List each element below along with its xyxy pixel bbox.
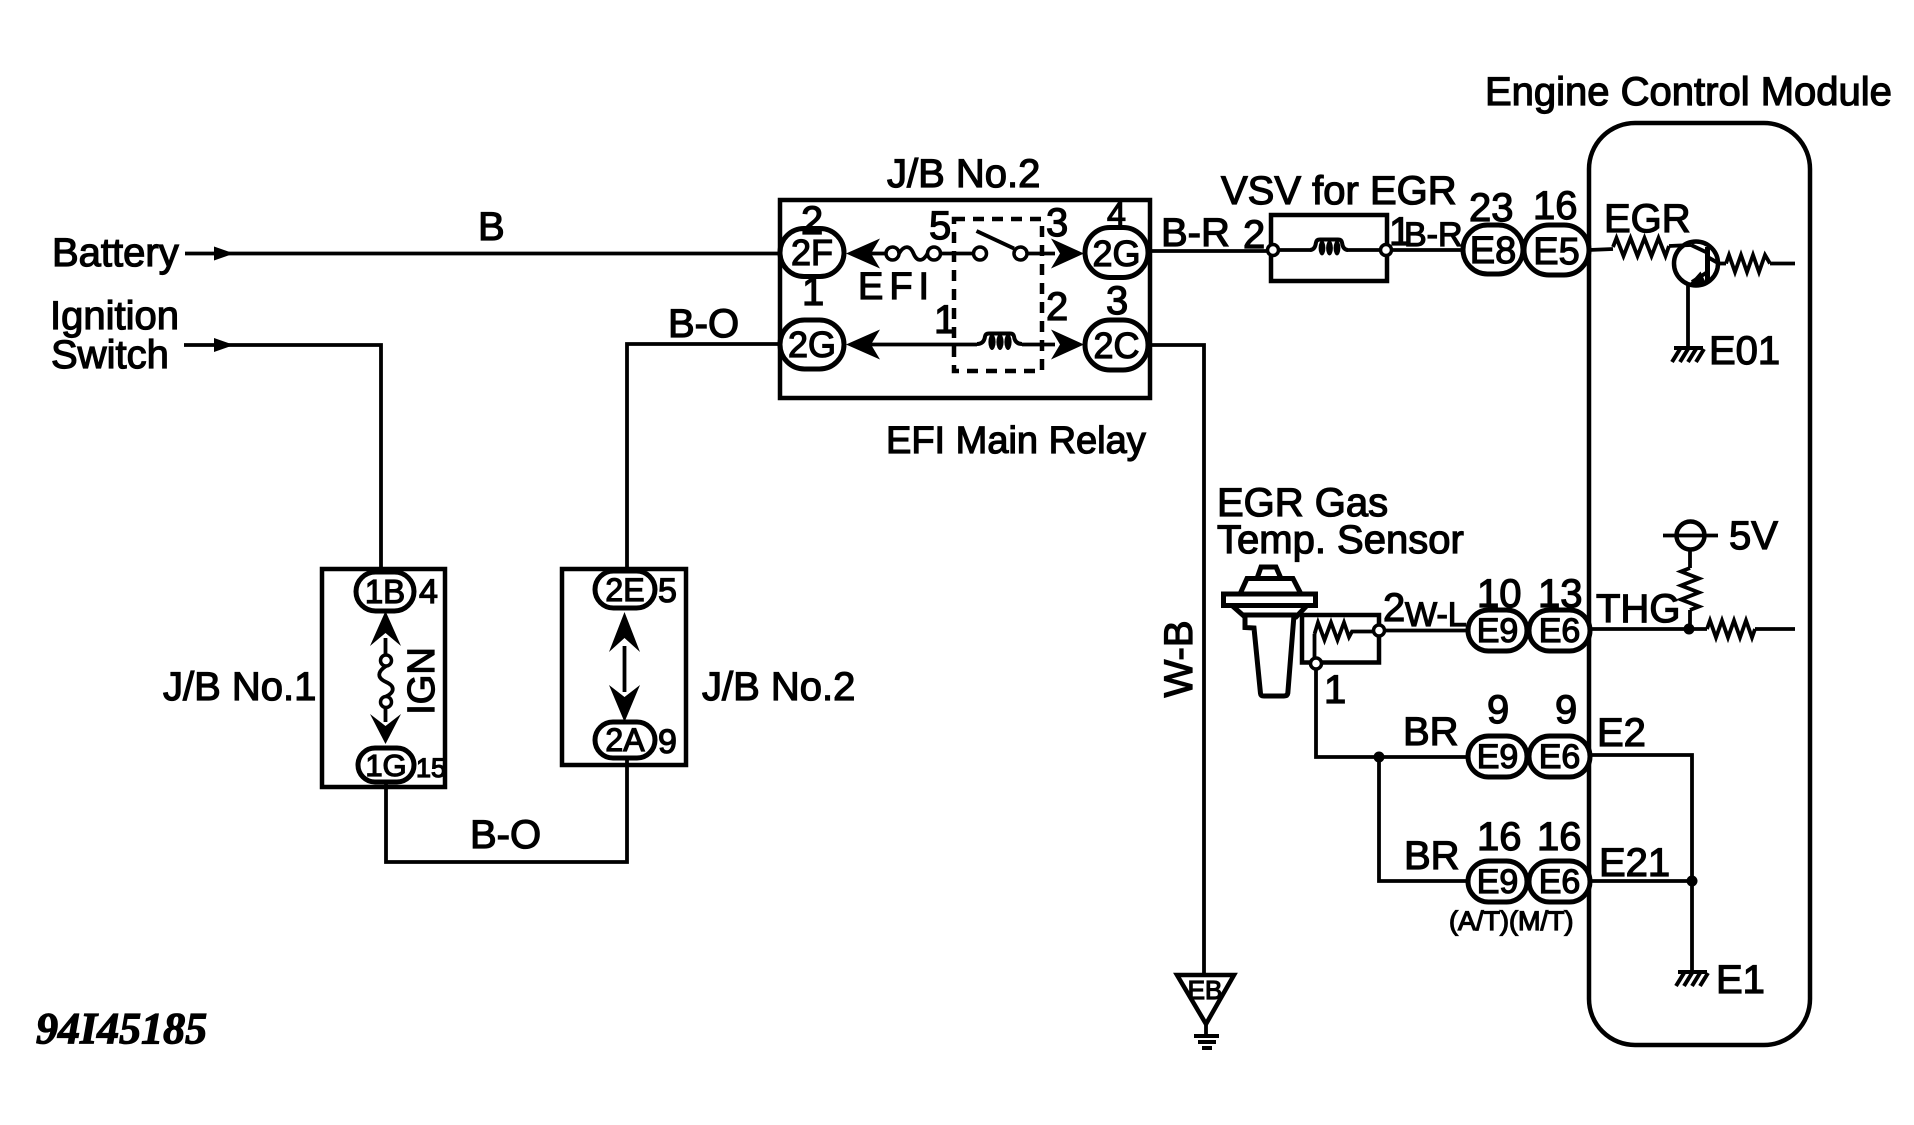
svg-text:2E: 2E	[605, 572, 644, 608]
svg-text:E8: E8	[1470, 230, 1516, 272]
svg-text:2A: 2A	[605, 722, 645, 758]
svg-text:E2: E2	[1597, 711, 1646, 755]
label (A/T)(M/T)	[1449, 906, 1573, 936]
svg-text:VSV for EGR: VSV for EGR	[1221, 169, 1457, 213]
VSV for EGR solenoid	[1268, 215, 1392, 281]
net label BR row1	[1403, 710, 1459, 754]
wire ignition switch to J/B No.1 pin 4	[232, 345, 381, 575]
net label B-R	[1161, 211, 1230, 255]
svg-text:W-L: W-L	[1405, 596, 1467, 634]
svg-text:13: 13	[1538, 572, 1583, 616]
connector E6 row2	[1529, 736, 1590, 777]
wire 5V to resistor	[1688, 550, 1692, 569]
svg-text:IGN: IGN	[401, 647, 443, 715]
svg-text:4: 4	[419, 573, 438, 611]
svg-text:W-B: W-B	[1157, 620, 1201, 697]
svg-text:B-O: B-O	[668, 302, 739, 346]
label J/B No.2	[702, 665, 855, 709]
svg-text:2: 2	[1243, 213, 1265, 257]
label IGN	[401, 647, 443, 715]
pin 2	[801, 199, 823, 243]
svg-text:9: 9	[1555, 688, 1577, 732]
svg-text:15: 15	[416, 753, 446, 783]
wire E5 to resistor	[1589, 249, 1613, 250]
svg-text:J/B No.2: J/B No.2	[702, 665, 855, 709]
label E21	[1599, 841, 1670, 885]
svg-text:J/B No.1: J/B No.1	[163, 665, 316, 709]
pin 1 relay coil	[934, 298, 956, 342]
connector 1B	[356, 572, 414, 611]
arrow left to 2G lower	[846, 330, 977, 360]
J/B No.1 box	[322, 569, 445, 787]
net label EGR	[1604, 197, 1691, 241]
svg-text:(A/T)(M/T): (A/T)(M/T)	[1449, 906, 1573, 936]
arrow left to 2F	[846, 239, 886, 269]
wire B-O 2E to relay 2G	[627, 344, 785, 569]
ground E01	[1672, 348, 1704, 362]
connector 2A	[595, 722, 655, 758]
svg-text:Engine Control Module: Engine Control Module	[1485, 70, 1892, 114]
svg-text:2: 2	[801, 199, 823, 243]
pin 5 relay	[929, 204, 951, 248]
pin 3	[1106, 279, 1128, 323]
pin 23	[1469, 186, 1514, 230]
svg-text:2G: 2G	[1092, 233, 1140, 274]
wire emitter to E01	[1686, 284, 1690, 348]
Engine Control Module box	[1589, 123, 1810, 1045]
net label B-O top	[668, 302, 739, 346]
5V supply	[1663, 514, 1778, 558]
label E1	[1716, 958, 1765, 1002]
ground EB	[1177, 975, 1234, 1048]
svg-text:THG: THG	[1596, 587, 1680, 631]
svg-text:5: 5	[658, 572, 677, 610]
resistor EGR	[1613, 238, 1669, 256]
wire VSV to E8	[1391, 248, 1468, 252]
figure number 94I45185	[36, 1004, 207, 1053]
pin 16 left	[1477, 815, 1522, 859]
svg-text:E6: E6	[1539, 863, 1581, 901]
connector E8	[1463, 225, 1523, 274]
connector E6 row1	[1529, 610, 1590, 651]
pin 2 VSV	[1243, 213, 1265, 257]
junction node BR	[1374, 752, 1385, 763]
label EFI Main Relay	[886, 420, 1146, 462]
terminal 2 sensor	[1374, 586, 1406, 636]
transistor Q1	[1674, 242, 1719, 286]
svg-text:16: 16	[1477, 815, 1522, 859]
arrow up to 2E	[609, 612, 640, 652]
svg-text:94I45185: 94I45185	[36, 1004, 207, 1053]
svg-text:9: 9	[1487, 688, 1509, 732]
connector 2F	[780, 229, 844, 277]
svg-text:Ignition: Ignition	[50, 294, 179, 338]
pin 4	[419, 573, 438, 611]
svg-text:B-R: B-R	[1161, 211, 1230, 255]
fuse EFI	[886, 247, 941, 260]
resistor 5V pullup	[1681, 568, 1699, 629]
net label W-L	[1405, 596, 1467, 634]
connector E9 row3	[1468, 861, 1527, 902]
connector E6 row3	[1529, 861, 1590, 902]
net label BR row2	[1404, 834, 1460, 878]
svg-text:J/B No.2: J/B No.2	[887, 152, 1040, 196]
pin 9	[658, 723, 677, 761]
wire W-B 2C to EB	[1148, 345, 1204, 975]
net label B-R right	[1404, 216, 1463, 254]
wire collector to resistor	[1718, 262, 1726, 266]
pin 16 right	[1537, 815, 1582, 859]
wire E2 down	[1589, 755, 1692, 881]
svg-text:1: 1	[934, 298, 956, 342]
resistor collector	[1726, 255, 1770, 272]
J/B No.2 lower box	[562, 569, 686, 765]
connector E9 row2	[1468, 736, 1527, 777]
junction E21	[1687, 876, 1698, 887]
svg-text:E9: E9	[1477, 738, 1519, 776]
battery feed arrow	[185, 247, 234, 261]
net label B-O bottom	[470, 813, 541, 857]
wire B battery to relay 2F	[232, 252, 790, 256]
ground E1	[1676, 972, 1708, 986]
relay switch contacts	[974, 231, 1056, 260]
svg-text:4: 4	[1107, 196, 1126, 234]
svg-text:3: 3	[1046, 201, 1068, 245]
svg-text:E9: E9	[1477, 612, 1519, 650]
wire resistor to transistor base	[1669, 245, 1691, 246]
connector 1G	[358, 748, 414, 783]
arrow up to 1B	[370, 611, 401, 655]
wire E21	[1589, 879, 1692, 883]
svg-text:E6: E6	[1539, 738, 1581, 776]
svg-text:2G: 2G	[788, 324, 836, 365]
svg-text:Temp. Sensor: Temp. Sensor	[1217, 518, 1464, 562]
wire BR row2	[1379, 757, 1468, 881]
svg-text:E9: E9	[1477, 863, 1519, 901]
resistor THG right	[1707, 621, 1795, 638]
connector 2G lower	[780, 320, 844, 369]
pin 5	[658, 572, 677, 610]
connector 2C pin 3	[1085, 320, 1148, 370]
label THG	[1596, 587, 1680, 631]
svg-text:E6: E6	[1539, 612, 1581, 650]
wire fuse to switch	[940, 252, 973, 256]
sensor resistor	[1315, 623, 1374, 659]
relay dashed outline	[954, 219, 1042, 371]
wire B-R relay to VSV	[1148, 249, 1268, 253]
pin 16	[1533, 184, 1578, 228]
wire to E1	[1690, 881, 1694, 972]
pin 15	[416, 753, 446, 783]
svg-text:1G: 1G	[365, 748, 406, 783]
connector E5	[1524, 225, 1589, 275]
wire B-O 1G to 2A	[386, 758, 627, 862]
label E2	[1597, 711, 1646, 755]
fuse IGN	[379, 655, 393, 708]
wire to right	[1770, 262, 1795, 266]
terminal 1 sensor	[1311, 658, 1347, 712]
wire sensor 2 to E9	[1385, 629, 1468, 633]
label Battery	[52, 231, 179, 275]
svg-text:Switch: Switch	[51, 333, 169, 377]
EGR gas temp sensor body	[1224, 567, 1316, 696]
svg-text:1B: 1B	[365, 573, 405, 610]
svg-text:B-O: B-O	[470, 813, 541, 857]
connector 2E	[595, 571, 655, 608]
label Ignition Switch	[50, 294, 179, 377]
svg-text:5: 5	[929, 204, 951, 248]
svg-text:BR: BR	[1404, 834, 1460, 878]
label E01	[1709, 329, 1780, 373]
arrow down to 2A	[609, 685, 640, 722]
label J/B No.1	[163, 665, 316, 709]
svg-text:Battery: Battery	[52, 231, 179, 275]
arrow right to 2C	[1051, 330, 1084, 360]
label EFI	[858, 266, 935, 308]
label J/B No.2 relay	[887, 152, 1040, 196]
pin 9 left	[1487, 688, 1509, 732]
svg-text:B: B	[478, 205, 505, 249]
svg-text:E01: E01	[1709, 329, 1780, 373]
svg-text:EFI Main Relay: EFI Main Relay	[886, 420, 1146, 462]
svg-text:10: 10	[1477, 572, 1522, 616]
wire coil to arrow	[1022, 343, 1055, 347]
svg-text:23: 23	[1469, 186, 1514, 230]
svg-text:2C: 2C	[1093, 325, 1139, 366]
svg-text:5V: 5V	[1729, 514, 1778, 558]
svg-text:EFI: EFI	[858, 266, 935, 308]
sensor resistor box	[1302, 615, 1379, 663]
pin 10	[1477, 572, 1522, 616]
J/B No.2 relay box	[780, 200, 1150, 398]
wire sensor 1 to BR row	[1316, 669, 1468, 757]
svg-text:E21: E21	[1599, 841, 1670, 885]
pin 3 relay	[1046, 201, 1068, 245]
svg-text:3: 3	[1106, 279, 1128, 323]
pin 4	[1107, 196, 1126, 234]
ignition feed arrow	[184, 338, 234, 352]
svg-text:BR: BR	[1403, 710, 1459, 754]
relay coil	[977, 334, 1022, 351]
net label W-B	[1157, 620, 1201, 697]
label EGR Gas Temp. Sensor	[1217, 481, 1464, 562]
svg-text:E1: E1	[1716, 958, 1765, 1002]
arrow right to 2G	[1051, 239, 1084, 269]
junction THG	[1684, 624, 1695, 635]
wire between arrows	[623, 646, 627, 692]
svg-text:EB: EB	[1188, 975, 1223, 1005]
svg-text:16: 16	[1537, 815, 1582, 859]
net label B	[478, 205, 505, 249]
pin 1	[802, 270, 824, 314]
label Engine Control Module	[1485, 70, 1892, 114]
pin 1 VSV	[1389, 210, 1411, 254]
arrow down to 1G	[370, 707, 401, 744]
svg-text:2: 2	[1383, 586, 1405, 630]
connector 2G pin 4	[1085, 228, 1148, 278]
pin 2 relay coil	[1046, 285, 1068, 329]
pin 9 right	[1555, 688, 1577, 732]
svg-text:9: 9	[658, 723, 677, 761]
wire THG	[1590, 627, 1707, 631]
svg-text:E5: E5	[1533, 231, 1579, 273]
svg-text:2: 2	[1046, 285, 1068, 329]
label VSV for EGR	[1221, 169, 1457, 213]
connector E9 row1	[1468, 610, 1527, 651]
svg-text:1: 1	[1324, 668, 1346, 712]
svg-text:1: 1	[802, 270, 824, 314]
pin 13	[1538, 572, 1583, 616]
svg-text:16: 16	[1533, 184, 1578, 228]
